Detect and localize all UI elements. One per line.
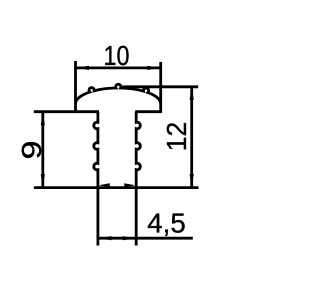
wire: dimension line 9 <box>41 112 44 188</box>
wire: stem left edge with three ribs <box>94 112 98 188</box>
arrowhead dim 10 left <box>76 66 89 70</box>
wire: extension line top of dim 12 <box>123 85 199 88</box>
svg-text:4,5: 4,5 <box>147 208 186 239</box>
arrowhead dim 12 bottom <box>190 174 194 187</box>
svg-text:10: 10 <box>104 40 130 71</box>
arrowhead dim 4,5 right <box>123 236 136 240</box>
arrowhead dim 12 top <box>190 87 194 100</box>
wire: extension line left of dim 4,5 <box>97 188 100 246</box>
wire: dome arc of cap with three bumps <box>76 84 161 104</box>
wire: extension line left of dim 10 / cap left edge <box>74 61 77 113</box>
wire: dimension line 10 <box>76 67 161 70</box>
wire: cap bottom right segment <box>135 110 162 113</box>
arrowhead dim 10 right <box>147 66 160 70</box>
arrowhead dim 4,5 left <box>98 236 111 240</box>
arrowhead dim 9 bottom <box>41 174 45 187</box>
wire: cap bottom left segment / top extension of dim 9 <box>34 110 99 113</box>
wire: dimension line 12 <box>190 87 193 188</box>
arrowhead dim 9 top <box>41 112 45 125</box>
wire: long bottom line (part bottom + extensions of dims 9 and 12) <box>34 186 199 189</box>
svg-text:9: 9 <box>16 141 47 160</box>
arrowhead at stem bottom right (tip of 4,5 measure) <box>124 183 135 187</box>
wire: extension line right of dim 4,5 <box>135 188 138 246</box>
svg-text:12: 12 <box>161 122 192 152</box>
wire: stem right edge with three ribs <box>136 112 140 188</box>
wire: dimension line 4,5 with text shelf <box>98 237 193 240</box>
arrowhead at stem bottom left (tip of 4,5 measure) <box>99 183 110 187</box>
wire: extension line right of dim 10 / cap right edge <box>159 62 162 113</box>
